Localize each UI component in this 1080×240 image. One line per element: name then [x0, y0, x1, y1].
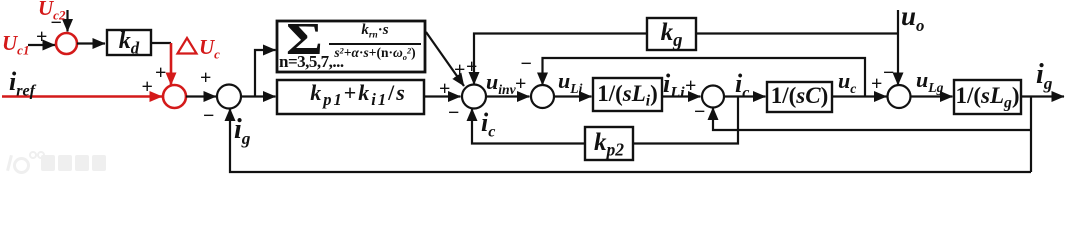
- wire: grid-voltage feedforward through kg into uinv junction: [474, 34, 898, 85]
- block 1/(sC): [767, 82, 832, 112]
- sign + at uinv from kg feedforward: [466, 57, 477, 77]
- wire: uc feedback into uLi junction (minus): [543, 58, 866, 97]
- label ic below uinv: [481, 110, 495, 136]
- sign + at uLi left: [515, 74, 526, 94]
- sign + at U2 horizontal input: [142, 77, 153, 97]
- block label 1/(sLi): [593, 78, 662, 111]
- sign + at U3 input: [200, 68, 211, 88]
- wire: Uc1 input arrow: [28, 44, 55, 46]
- sign + at uLg left: [871, 74, 882, 94]
- watermark character blocks: [41, 155, 55, 171]
- compensator n=3,5,7 text: [279, 53, 344, 70]
- sign − at ic junction bottom: [694, 102, 705, 122]
- sigma symbol in compensator block: [286, 17, 323, 62]
- watermark logo rings: [6, 155, 13, 171]
- wire: ic junction to 1/(sC) block: [725, 95, 766, 97]
- wire: Uc2 input arrow down: [66, 10, 68, 32]
- wire: inner ig feedback into ic junction (minus): [713, 108, 1031, 131]
- wire: PI output into uinv junction: [424, 95, 461, 97]
- compensator fraction bar: [329, 43, 421, 45]
- gain label kd: [107, 30, 151, 55]
- summing junction U1 (Uc1 − Uc2), red: [56, 33, 77, 54]
- block 1/(sLg): [954, 80, 1021, 114]
- wire: kd output horizontal black segment: [151, 42, 171, 44]
- label Uc1 (red): [2, 33, 29, 54]
- block: harmonic resonant compensator (sum): [277, 21, 425, 72]
- wire: ig output arrow: [1021, 95, 1064, 97]
- label iref: [9, 69, 35, 95]
- block: PI controller kp1+ki1/s: [277, 80, 424, 114]
- label iLi: [663, 71, 685, 97]
- label uLi: [558, 70, 582, 92]
- summing junction U2 (iref + ΔUc), red: [163, 85, 186, 108]
- label ΔUc text (red): [199, 37, 220, 58]
- label ic mid chain: [735, 71, 749, 97]
- sign + at uinv from compensator: [454, 60, 465, 80]
- compensator fraction numerator: [329, 23, 421, 38]
- sign − at uinv bottom: [448, 103, 459, 123]
- label uinv: [486, 71, 516, 93]
- gain block kd: [107, 30, 151, 55]
- block 1/(sLi): [593, 78, 662, 111]
- wire: grid voltage uo input arrow down: [897, 10, 899, 85]
- label Uc2 (red): [38, 0, 65, 19]
- wire: iLi to ic junction: [662, 95, 701, 97]
- wire: ig tap vertical at right: [1030, 97, 1032, 173]
- gain block kg: [647, 18, 696, 50]
- gain label kp2: [585, 127, 633, 160]
- wire: uinv to uLi junction: [486, 95, 530, 97]
- sign − at uLi top: [521, 54, 532, 74]
- wire: uLi junction to 1/(sLi) block: [554, 95, 592, 97]
- summing junction uLg (uc − uo): [888, 85, 911, 108]
- label uLg: [916, 69, 943, 91]
- label uc: [838, 70, 856, 92]
- wire: uLg junction to 1/(sLg) block: [910, 95, 953, 97]
- summing junction ic (iLi − ig): [702, 86, 724, 108]
- sign + at U1 left: [36, 27, 47, 47]
- summing junction uLi: [531, 85, 554, 108]
- wire: branch up into harmonic compensator: [255, 50, 276, 97]
- sign − at uLg top: [883, 63, 894, 83]
- sign − at U1 top: [51, 13, 62, 33]
- wire: outer ig feedback into current-error junction (minus): [230, 109, 1031, 173]
- wire: compensator output diagonal into uinv junction: [426, 32, 464, 86]
- sign − at U3 bottom input: [203, 106, 214, 126]
- triangle of ΔUc label (red): [178, 38, 197, 54]
- label uo: [901, 3, 924, 30]
- wire: junction U1 to kd box: [77, 42, 105, 44]
- label ig output: [1036, 61, 1052, 89]
- wire: ΔUc red arrow down into red summing junction: [170, 43, 173, 85]
- block label 1/(sLg): [954, 80, 1021, 114]
- summing junction U3 (current error, − ig): [217, 85, 241, 109]
- sign + at U2 vertical input: [155, 63, 166, 83]
- sign + at ic junction left: [685, 76, 696, 96]
- block label 1/(sC): [767, 82, 832, 112]
- gain block kp2: [585, 127, 633, 160]
- label ig at outer feedback: [234, 116, 250, 144]
- wire: iref input line (red): [2, 95, 162, 97]
- gain label kg: [647, 18, 696, 50]
- PI controller label kp1+ki1/s: [285, 80, 432, 114]
- summing junction uinv: [462, 85, 486, 109]
- sign + at uinv from PI: [439, 79, 450, 99]
- wire: kp2 capacitor-current feedback path into uinv junction (minus): [472, 97, 738, 144]
- compensator fraction denominator: [326, 46, 424, 60]
- wire: uc to uLg junction: [832, 95, 887, 97]
- wire: red junction U2 to current-error junction: [186, 95, 216, 97]
- wire: error to PI block: [241, 95, 276, 97]
